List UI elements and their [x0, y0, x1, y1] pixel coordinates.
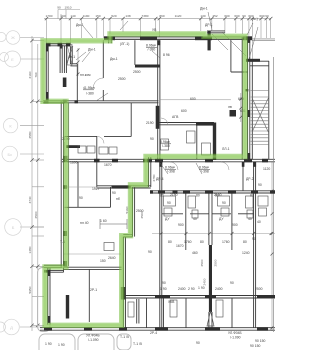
svg-text:900: 900: [232, 223, 238, 227]
svg-text:1760: 1760: [184, 240, 192, 244]
svg-text:1480: 1480: [28, 246, 32, 253]
svg-text:90: 90: [252, 237, 256, 241]
leader lines: [76, 12, 258, 174]
svg-text:/-380: /-380: [86, 92, 94, 96]
svg-text:90: 90: [230, 281, 234, 285]
svg-text:600: 600: [181, 109, 187, 113]
svg-text:(ЛГ-1): (ЛГ-1): [120, 42, 129, 46]
svg-text:2 90: 2 90: [188, 287, 195, 291]
svg-text:Бс: Бс: [7, 152, 12, 157]
svg-text:Дм-1: Дм-1: [110, 57, 118, 61]
svg-text:ДР-4: ДР-4: [156, 177, 164, 181]
svg-text:2580: 2580: [28, 131, 32, 138]
svg-text:1670: 1670: [104, 163, 112, 167]
svg-text:5950: 5950: [28, 286, 32, 293]
svg-text:90: 90: [57, 6, 61, 10]
svg-text:460: 460: [192, 251, 198, 255]
svg-text:600: 600: [259, 14, 264, 18]
svg-text:90: 90: [79, 196, 83, 200]
svg-text:АГВ: АГВ: [172, 115, 179, 119]
svg-text:2500: 2500: [136, 209, 144, 213]
svg-text:7380: 7380: [142, 14, 149, 18]
svg-text:90: 90: [258, 183, 262, 187]
svg-text:860: 860: [159, 14, 164, 18]
svg-text:/-398: /-398: [201, 170, 209, 174]
svg-text:90 150: 90 150: [250, 344, 260, 348]
svg-text:пл.ком: пл.ком: [80, 73, 91, 77]
svg-text:1600: 1600: [70, 161, 78, 165]
svg-text:пб: пб: [116, 197, 120, 201]
svg-text:138: 138: [125, 14, 130, 18]
svg-text:190: 190: [60, 14, 65, 18]
svg-text:лв: лв: [228, 105, 232, 109]
svg-text:1240: 1240: [242, 251, 250, 255]
staircase treads: [251, 91, 269, 145]
entrance door triangle: [207, 311, 214, 326]
svg-text:2400: 2400: [178, 287, 186, 291]
svg-text:УКВ: УКВ: [168, 300, 175, 304]
svg-text:80: 80: [243, 240, 247, 244]
svg-text:8 96: 8 96: [163, 53, 170, 57]
svg-text:90: 90: [112, 191, 116, 195]
svg-text:600: 600: [224, 14, 229, 18]
svg-text:(м-): (м-): [252, 17, 258, 21]
svg-text:1917: 1917: [92, 187, 100, 191]
green highlighter overlay (apartment boundary): [43, 34, 245, 325]
svg-text:2500: 2500: [214, 259, 218, 266]
svg-text:600: 600: [234, 14, 239, 18]
svg-text:пл 40: пл 40: [80, 221, 89, 225]
svg-text:/-398: /-398: [167, 170, 175, 174]
svg-text:2500: 2500: [133, 70, 141, 74]
svg-text:/-1.090: /-1.090: [230, 336, 241, 340]
svg-text:Дм-1: Дм-1: [76, 23, 84, 27]
svg-text:2500: 2500: [200, 259, 204, 266]
svg-text:900: 900: [178, 223, 184, 227]
svg-text:40: 40: [248, 217, 252, 221]
tiny annotation texts: [28, 6, 270, 349]
svg-text:2190: 2190: [170, 193, 178, 197]
svg-text:80: 80: [200, 240, 204, 244]
svg-text:760: 760: [34, 72, 38, 77]
svg-text:80: 80: [250, 194, 254, 198]
walls: [40, 31, 275, 332]
svg-text:80: 80: [160, 194, 164, 198]
svg-text:1 90: 1 90: [45, 342, 52, 346]
wall piers (filled): [44, 31, 275, 331]
svg-text:/-380: /-380: [148, 48, 156, 52]
svg-text:Т-1 /5: Т-1 /5: [133, 342, 142, 346]
svg-text:1700: 1700: [46, 14, 53, 18]
svg-text:Ж: Ж: [11, 35, 15, 40]
svg-text:150: 150: [95, 14, 100, 18]
svg-text:520: 520: [111, 14, 116, 18]
svg-text:Дм-1: Дм-1: [200, 7, 208, 11]
svg-text:90: 90: [162, 281, 166, 285]
svg-text:УЛ.Ф04Б: УЛ.Ф04Б: [228, 331, 243, 335]
svg-text:90: 90: [148, 250, 152, 254]
svg-text:2Р-1: 2Р-1: [90, 288, 97, 292]
svg-text:УЛ.Ф04Б: УЛ.Ф04Б: [86, 334, 101, 338]
axis circles: [0, 31, 21, 335]
interior dimension arrows: [64, 142, 127, 229]
svg-text:2400: 2400: [203, 278, 207, 285]
svg-text:40: 40: [257, 220, 261, 224]
svg-text:90 150: 90 150: [255, 339, 265, 343]
svg-text:1 90: 1 90: [160, 287, 167, 291]
svg-text:2Р-4: 2Р-4: [150, 331, 157, 335]
balcony outlines: [38, 268, 132, 350]
svg-text:1 60: 1 60: [100, 219, 107, 223]
svg-text:Е: Е: [11, 57, 14, 62]
svg-text:1120: 1120: [263, 167, 270, 171]
svg-text:80: 80: [215, 194, 219, 198]
svg-text:1 90: 1 90: [58, 343, 65, 347]
svg-text:1120: 1120: [175, 14, 182, 18]
svg-text:Б: Б: [12, 225, 15, 230]
svg-text:140: 140: [70, 14, 75, 18]
dimension tick marks: [30, 17, 273, 329]
svg-text:ЛЛ-1: ЛЛ-1: [222, 147, 230, 151]
svg-text:90: 90: [265, 14, 269, 18]
svg-text:40: 40: [193, 217, 197, 221]
svg-text:1 90: 1 90: [198, 286, 205, 290]
svg-text:1910: 1910: [65, 6, 72, 10]
svg-text:4740: 4740: [28, 196, 32, 203]
svg-text:80: 80: [196, 194, 200, 198]
svg-text:90: 90: [167, 201, 171, 205]
fixtures: [78, 131, 268, 317]
svg-text:/-380: /-380: [162, 144, 170, 148]
svg-text:ДР-1: ДР-1: [205, 23, 213, 27]
svg-text:150: 150: [100, 259, 106, 263]
svg-text:90: 90: [222, 201, 226, 205]
svg-text:1670: 1670: [176, 244, 184, 248]
svg-text:Т-1 /5: Т-1 /5: [120, 335, 129, 339]
door swing arcs: [93, 78, 229, 170]
svg-text:ДР-2: ДР-2: [246, 177, 254, 181]
svg-text:2640: 2640: [108, 256, 116, 260]
svg-text:2190: 2190: [146, 121, 154, 125]
dimension framework: [20, 10, 275, 332]
svg-text:Дм-1: Дм-1: [88, 48, 96, 52]
svg-text:/-1.090: /-1.090: [88, 338, 99, 342]
svg-text:Д: Д: [10, 325, 13, 330]
svg-text:452: 452: [212, 14, 217, 18]
svg-text:2400: 2400: [215, 287, 223, 291]
svg-text:Дв-1: Дв-1: [68, 55, 75, 59]
svg-text:1190: 1190: [83, 14, 90, 18]
svg-text:130: 130: [200, 14, 205, 18]
svg-text:41.95м²: 41.95м²: [83, 86, 96, 90]
svg-text:90: 90: [150, 137, 154, 141]
svg-text:90: 90: [242, 14, 246, 18]
svg-text:80: 80: [168, 240, 172, 244]
svg-text:2500: 2500: [118, 77, 126, 81]
svg-text:2160: 2160: [28, 71, 32, 78]
svg-text:1760: 1760: [222, 240, 230, 244]
svg-text:2500: 2500: [34, 211, 38, 218]
svg-text:600: 600: [190, 97, 196, 101]
svg-text:90: 90: [196, 341, 200, 345]
svg-text:2500: 2500: [255, 287, 263, 291]
